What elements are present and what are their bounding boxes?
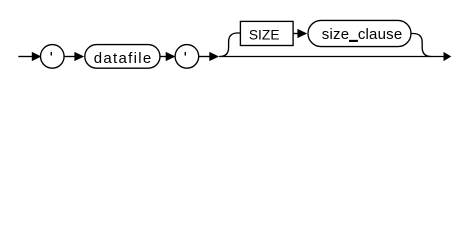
wire: start segment <box>18 56 33 58</box>
wire: datafile to circle2 <box>160 56 167 58</box>
arrowhead before optional branch <box>209 52 219 61</box>
wire: SIZE to size_clause <box>293 33 299 35</box>
arrowhead at diagram end <box>444 52 452 61</box>
arrowhead into datafile <box>74 52 84 61</box>
arrowhead into second quote <box>166 52 176 61</box>
oval: size_clause <box>308 20 411 46</box>
wire: circle1 to datafile <box>64 56 76 58</box>
terminal circle: closing quote ' <box>175 45 199 69</box>
underscore of size_clause (thickened) <box>349 40 358 42</box>
wire: branch up to SIZE <box>220 33 241 57</box>
oval: datafile <box>85 45 160 69</box>
quote tick inside first circle <box>50 52 52 56</box>
wire: size_clause back down to main line <box>411 34 431 57</box>
wire: circle2 onward <box>199 56 211 58</box>
svg-text:size_clause: size_clause <box>322 26 403 43</box>
arrowhead into first quote <box>32 52 42 61</box>
svg-text:SIZE: SIZE <box>249 28 280 43</box>
keyword box: SIZE <box>240 21 293 45</box>
quote tick inside second circle <box>184 52 186 56</box>
arrowhead into size_clause <box>297 29 307 38</box>
wire: main bypass line <box>219 56 444 58</box>
railroad syntax diagram: datafile_tempfile_spec <box>0 0 452 78</box>
svg-text:datafile: datafile <box>94 50 153 67</box>
terminal circle: opening quote ' <box>41 45 65 69</box>
